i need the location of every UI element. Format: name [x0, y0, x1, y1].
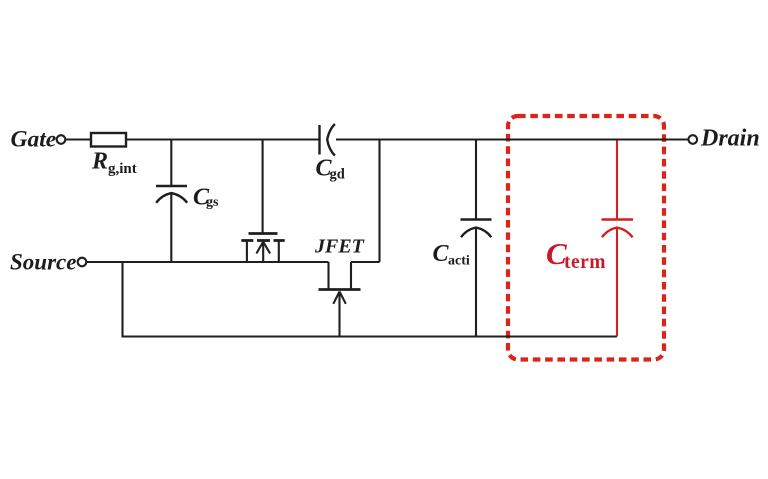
- svg-text:Source: Source: [10, 250, 76, 275]
- svg-text:gs: gs: [206, 195, 219, 210]
- svg-text:term: term: [564, 252, 606, 273]
- svg-text:Drain: Drain: [700, 126, 760, 152]
- svg-text:g,int: g,int: [108, 161, 137, 177]
- svg-text:Gate: Gate: [11, 127, 57, 153]
- svg-text:gd: gd: [330, 167, 345, 183]
- svg-text:C: C: [433, 241, 450, 267]
- svg-text:JFET: JFET: [314, 236, 365, 258]
- svg-text:acti: acti: [448, 254, 470, 269]
- svg-text:R: R: [91, 149, 108, 175]
